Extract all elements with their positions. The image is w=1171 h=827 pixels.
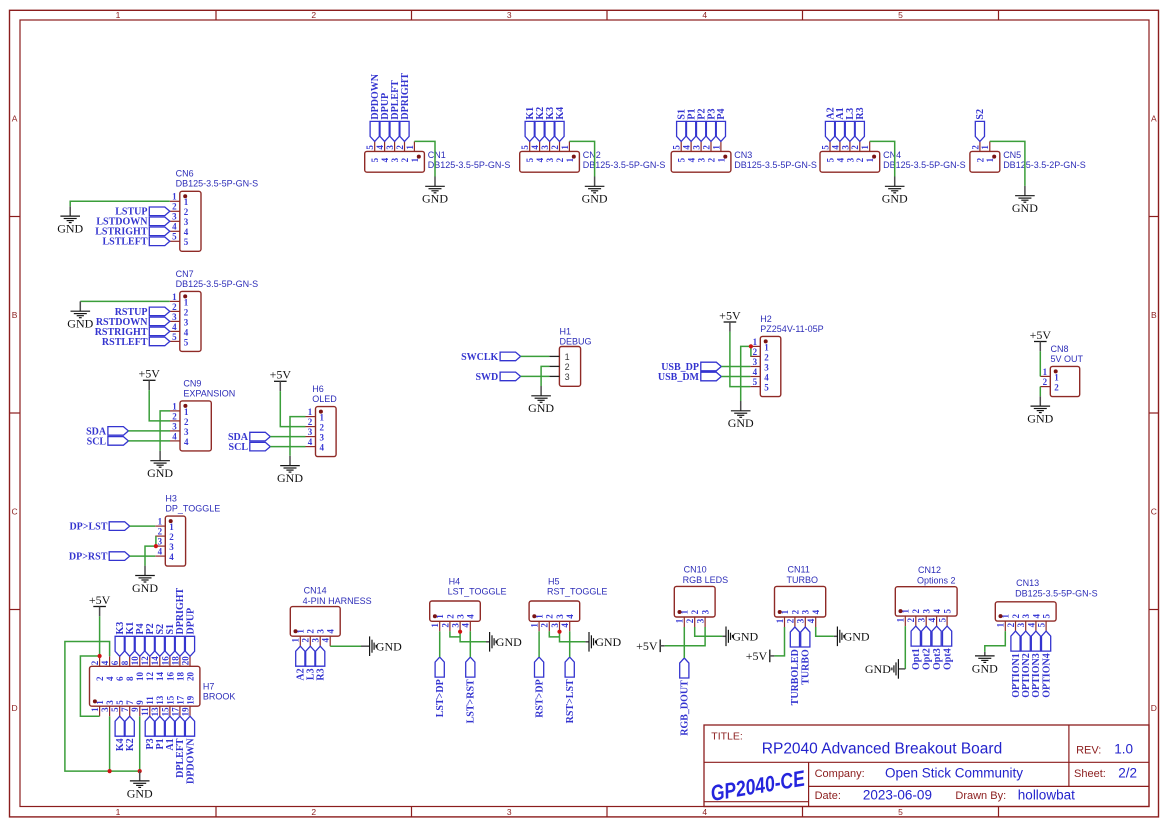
junction [108, 769, 112, 773]
svg-text:18: 18 [170, 656, 180, 666]
junction [98, 654, 102, 658]
svg-text:5: 5 [184, 337, 189, 347]
svg-text:GND: GND [844, 630, 870, 644]
svg-text:2: 2 [172, 202, 177, 212]
global label DP>LST [69, 522, 129, 533]
svg-text:H7: H7 [203, 682, 215, 692]
svg-text:1: 1 [560, 145, 570, 150]
wire H2 pins1+2 to GND [750, 346, 752, 356]
global label L3 [306, 646, 317, 680]
svg-text:3: 3 [701, 609, 711, 614]
svg-text:Drawn By:: Drawn By: [955, 790, 1006, 802]
svg-text:DB125-3.5-5P-GN-S: DB125-3.5-5P-GN-S [176, 179, 259, 189]
svg-text:1: 1 [1043, 367, 1048, 377]
global label SCL [229, 442, 271, 453]
svg-text:4: 4 [530, 145, 540, 150]
svg-text:2: 2 [555, 157, 565, 162]
junction [749, 344, 753, 348]
svg-text:DP>LST: DP>LST [69, 522, 107, 533]
svg-text:2: 2 [311, 10, 316, 20]
wire +5V to H6 pin2 [280, 391, 305, 427]
svg-text:2: 2 [400, 157, 410, 162]
svg-text:3: 3 [311, 638, 321, 643]
wire H3 pins2+3 to GND [155, 536, 157, 546]
ground CN14-GND [361, 636, 402, 656]
ground H2-GND [728, 401, 754, 430]
svg-text:5: 5 [677, 157, 687, 162]
svg-text:CN6: CN6 [176, 169, 194, 179]
svg-text:3: 3 [507, 807, 512, 817]
svg-text:5: 5 [672, 145, 682, 150]
junction [154, 544, 158, 548]
svg-text:12: 12 [140, 656, 150, 666]
svg-text:3: 3 [1021, 614, 1031, 619]
svg-text:4: 4 [753, 367, 758, 377]
global label USB_DP [661, 362, 721, 373]
svg-text:19: 19 [185, 695, 195, 705]
svg-text:5: 5 [898, 807, 903, 817]
svg-text:A: A [1151, 113, 1157, 123]
wire pin1 to GND [870, 141, 895, 176]
ground CN2-GND [582, 177, 608, 206]
global label RSTLEFT [102, 337, 170, 348]
connector H7 BROOK [90, 656, 236, 717]
wire pin1 to GND [990, 141, 1025, 186]
svg-text:1: 1 [753, 337, 758, 347]
global label K4 [555, 107, 566, 142]
svg-text:2: 2 [184, 307, 189, 317]
svg-text:CN7: CN7 [176, 269, 194, 279]
svg-text:2: 2 [172, 302, 177, 312]
svg-text:TURBO: TURBO [801, 649, 812, 685]
svg-text:CN4: CN4 [883, 150, 901, 160]
wire pin1 down [439, 631, 441, 657]
svg-text:B: B [12, 310, 18, 320]
svg-text:1: 1 [896, 617, 906, 622]
svg-text:CN5: CN5 [1003, 150, 1021, 160]
junction [458, 630, 462, 634]
ground CN11-GND [834, 627, 870, 647]
svg-text:4: 4 [764, 372, 769, 382]
svg-text:DB125-3.5-5P-GN-S: DB125-3.5-5P-GN-S [176, 279, 259, 289]
connector H2 PZ254V-11-05P [750, 314, 823, 397]
svg-text:3: 3 [172, 312, 177, 322]
global label K2 [535, 107, 546, 142]
svg-text:H6: H6 [312, 384, 324, 394]
svg-text:+5V: +5V [636, 639, 658, 653]
svg-text:2: 2 [565, 362, 570, 372]
svg-text:6: 6 [110, 660, 120, 665]
svg-text:CN1: CN1 [428, 150, 446, 160]
wire pins2+3 to GND [549, 631, 559, 637]
global label LST>RST [466, 657, 477, 723]
svg-text:R3: R3 [855, 107, 866, 119]
svg-text:+5V: +5V [138, 367, 160, 381]
svg-text:4: 4 [702, 807, 707, 817]
svg-text:5: 5 [184, 237, 189, 247]
svg-text:R3: R3 [316, 668, 327, 680]
svg-text:A: A [12, 113, 18, 123]
svg-text:GND: GND [127, 786, 153, 800]
svg-text:4: 4 [380, 157, 390, 162]
svg-text:RGB_DOUT: RGB_DOUT [680, 680, 691, 736]
svg-text:1: 1 [184, 407, 189, 417]
connector CN12 Options 2 [895, 565, 957, 626]
connector H4 LST_TOGGLE [430, 577, 507, 632]
svg-text:4: 4 [682, 145, 692, 150]
svg-text:1: 1 [860, 145, 870, 150]
global label DPLEFT [390, 80, 401, 142]
ground H3-GND [132, 566, 158, 595]
svg-text:CN11: CN11 [788, 565, 810, 575]
svg-text:4: 4 [172, 431, 177, 441]
wire SCL to H6 pin4 [270, 446, 305, 448]
global label LSTLEFT [102, 237, 169, 248]
svg-text:GND: GND [67, 317, 93, 331]
svg-text:4: 4 [687, 157, 697, 162]
global label P4 [135, 623, 146, 656]
global label K2 [125, 716, 136, 751]
svg-text:3: 3 [184, 427, 189, 437]
global label S1 [677, 109, 688, 141]
svg-text:5: 5 [938, 617, 948, 622]
svg-text:2: 2 [158, 527, 163, 537]
svg-text:4: 4 [466, 614, 476, 619]
wire DP>LST to H3 pin1 [130, 525, 156, 527]
svg-text:3: 3 [753, 357, 758, 367]
svg-text:2: 2 [184, 207, 189, 217]
junction [557, 630, 561, 634]
svg-text:DB125-3.5-5P-GN-S: DB125-3.5-5P-GN-S [428, 160, 511, 170]
svg-text:3: 3 [451, 623, 461, 628]
svg-text:DB125-3.5-5P-GN-S: DB125-3.5-5P-GN-S [734, 160, 817, 170]
wire +5V to CN10 pin3 [665, 627, 705, 646]
ground CN13-GND [972, 652, 998, 675]
global label RST>LST [565, 657, 576, 723]
svg-text:4: 4 [806, 618, 816, 623]
ground CN1-GND [422, 177, 448, 206]
svg-text:5: 5 [898, 10, 903, 20]
svg-text:1: 1 [116, 10, 121, 20]
svg-text:3: 3 [172, 421, 177, 431]
svg-text:5: 5 [820, 145, 830, 150]
svg-text:1: 1 [405, 145, 415, 150]
svg-text:S2: S2 [975, 109, 986, 120]
svg-text:2: 2 [395, 145, 405, 150]
svg-text:3: 3 [184, 317, 189, 327]
global label A2 [825, 107, 836, 141]
svg-text:2: 2 [308, 417, 313, 427]
power +5V H6 [270, 368, 292, 391]
connector CN1 DB125-3.5-5P-GN-S [365, 141, 511, 172]
svg-text:5: 5 [943, 609, 953, 614]
svg-text:+5V: +5V [719, 308, 741, 322]
connector CN3 DB125-3.5-5P-GN-S [671, 141, 817, 172]
svg-text:GND: GND [732, 630, 758, 644]
svg-text:1: 1 [169, 522, 174, 532]
svg-text:4: 4 [535, 157, 545, 162]
global label OPTION4 [1041, 631, 1052, 698]
svg-text:14: 14 [150, 656, 160, 666]
svg-text:2: 2 [320, 423, 325, 433]
svg-text:RSTLEFT: RSTLEFT [102, 337, 148, 348]
svg-text:PZ254V-11-05P: PZ254V-11-05P [760, 324, 823, 334]
global label LSTRIGHT [95, 227, 170, 238]
svg-text:CN3: CN3 [734, 150, 752, 160]
svg-text:16: 16 [165, 672, 175, 682]
ground CN12-GND [865, 659, 905, 679]
svg-text:4: 4 [326, 629, 336, 634]
svg-text:5: 5 [764, 383, 769, 393]
svg-text:GND: GND [865, 662, 891, 676]
svg-text:2: 2 [172, 411, 177, 421]
wire SWD to H1 pin3 [521, 375, 550, 377]
svg-text:D: D [1151, 703, 1157, 713]
svg-text:EXPANSION: EXPANSION [183, 388, 235, 398]
svg-text:3: 3 [545, 157, 555, 162]
wire SDA to pin3 [128, 430, 170, 432]
svg-text:10: 10 [135, 672, 145, 682]
global label P2 [696, 108, 707, 141]
svg-text:CN8: CN8 [1051, 344, 1069, 354]
wire pin1 to GND [569, 141, 594, 176]
svg-text:3: 3 [845, 157, 855, 162]
svg-text:5: 5 [115, 700, 125, 705]
svg-text:H2: H2 [760, 314, 772, 324]
global label K4 [115, 716, 126, 751]
global label R3 [316, 646, 327, 680]
svg-text:2: 2 [90, 660, 100, 665]
svg-text:SWD: SWD [476, 372, 499, 383]
svg-text:2: 2 [685, 618, 695, 623]
wire CN13 pin1 to GND [985, 631, 1006, 652]
global label DPDOWN [185, 716, 196, 784]
svg-text:2: 2 [440, 623, 450, 628]
power +5V CN8 [1030, 328, 1052, 351]
ground CN10-GND [722, 627, 758, 647]
svg-text:2: 2 [169, 532, 174, 542]
svg-text:2: 2 [550, 145, 560, 150]
svg-text:GND: GND [132, 581, 158, 595]
svg-text:3: 3 [184, 217, 189, 227]
global label TURBO [801, 627, 812, 685]
global label K1 [525, 107, 536, 142]
svg-text:3: 3 [105, 700, 115, 705]
svg-text:K4: K4 [555, 107, 566, 120]
global label SDA [86, 426, 128, 437]
svg-text:3: 3 [796, 618, 806, 623]
svg-text:2: 2 [95, 676, 105, 681]
ground CN6-GND [57, 206, 83, 235]
svg-text:1: 1 [711, 145, 721, 150]
svg-text:4: 4 [320, 443, 325, 453]
svg-text:LSTLEFT: LSTLEFT [102, 237, 147, 248]
svg-text:4: 4 [1031, 614, 1041, 619]
wire +5V to CN9 pin2 [149, 390, 170, 421]
svg-text:2: 2 [855, 157, 865, 162]
ground H5-GND [585, 632, 621, 652]
svg-text:3: 3 [320, 433, 325, 443]
svg-text:GND: GND [1027, 412, 1053, 426]
global label USB_DM [658, 372, 721, 383]
svg-text:GND: GND [582, 192, 608, 206]
global label K3 [545, 107, 556, 142]
svg-text:16: 16 [160, 656, 170, 666]
global label DPDOWN [370, 73, 381, 141]
connector CN14 4-PIN HARNESS [290, 586, 371, 647]
wire +5V to CN11 pin1 [774, 627, 784, 656]
svg-text:1: 1 [980, 145, 990, 150]
wire +5V to H2 pin5 [730, 332, 750, 387]
svg-text:DP_TOGGLE: DP_TOGGLE [165, 504, 220, 514]
svg-text:2: 2 [970, 145, 980, 150]
global label SWCLK [461, 352, 521, 363]
svg-text:3: 3 [308, 427, 313, 437]
ground H1-GND [528, 386, 554, 415]
global label P3 [706, 108, 717, 141]
svg-text:GND: GND [595, 635, 621, 649]
svg-text:RST>LST: RST>LST [565, 679, 576, 723]
wire CN14 pin4 to GND [330, 645, 361, 647]
svg-text:15: 15 [160, 707, 170, 717]
global label DPRIGHT [175, 588, 186, 657]
svg-text:4: 4 [927, 617, 937, 622]
svg-text:CN2: CN2 [583, 150, 601, 160]
svg-text:2: 2 [785, 618, 795, 623]
svg-text:1: 1 [430, 623, 440, 628]
svg-text:2/2: 2/2 [1118, 765, 1137, 780]
svg-text:1: 1 [764, 342, 769, 352]
ground H6-GND [277, 456, 303, 485]
svg-text:3: 3 [1016, 622, 1026, 627]
svg-text:11: 11 [140, 707, 150, 716]
svg-text:2: 2 [540, 623, 550, 628]
svg-text:3: 3 [456, 614, 466, 619]
svg-text:2: 2 [1043, 377, 1048, 387]
svg-text:18: 18 [175, 672, 185, 682]
svg-text:OLED: OLED [312, 394, 337, 404]
svg-text:4: 4 [100, 660, 110, 665]
global label P4 [716, 108, 727, 141]
svg-text:3: 3 [507, 10, 512, 20]
svg-text:CN13: CN13 [1016, 578, 1039, 588]
global label OPTION3 [1031, 631, 1042, 698]
svg-text:REV:: REV: [1076, 744, 1101, 756]
wire pin1 to GND [414, 141, 435, 176]
svg-text:2: 2 [701, 145, 711, 150]
title block [704, 725, 1149, 807]
svg-text:2: 2 [690, 609, 700, 614]
svg-text:DB125-3.5-5P-GN-S: DB125-3.5-5P-GN-S [1015, 588, 1098, 598]
svg-text:4: 4 [1026, 622, 1036, 627]
svg-text:Opt1: Opt1 [911, 648, 922, 670]
svg-text:GND: GND [277, 471, 303, 485]
svg-text:1: 1 [565, 352, 570, 362]
svg-text:1: 1 [172, 292, 177, 302]
svg-text:4: 4 [172, 222, 177, 232]
wire +5V to H7 pins 2 and 1 [99, 616, 101, 656]
svg-text:2: 2 [850, 145, 860, 150]
svg-text:8: 8 [125, 676, 135, 681]
global label S1 [165, 624, 176, 656]
ground H4-GND [486, 632, 522, 652]
ground CN7-GND [67, 301, 93, 330]
global label DPUP [185, 608, 196, 656]
svg-text:3: 3 [917, 617, 927, 622]
svg-text:3: 3 [550, 623, 560, 628]
wire pin1 to GND [80, 300, 170, 302]
global label A2 [296, 646, 307, 680]
svg-text:H4: H4 [449, 577, 461, 587]
svg-text:4: 4 [375, 145, 385, 150]
ground CN4-GND [882, 177, 908, 206]
global label DPLEFT [175, 716, 186, 778]
global label LSTUP [115, 207, 170, 218]
svg-text:K2: K2 [125, 738, 136, 751]
svg-text:1.0: 1.0 [1114, 741, 1133, 756]
svg-text:H5: H5 [548, 577, 560, 587]
svg-text:13: 13 [155, 695, 165, 705]
svg-text:TURBOLED: TURBOLED [790, 649, 801, 705]
svg-text:7: 7 [120, 707, 130, 712]
svg-text:TITLE:: TITLE: [711, 731, 743, 743]
svg-text:3: 3 [169, 542, 174, 552]
svg-text:1: 1 [675, 618, 685, 623]
connector H5 RST_TOGGLE [529, 577, 607, 632]
svg-text:5: 5 [525, 157, 535, 162]
svg-text:4: 4 [461, 623, 471, 628]
global label SCL [87, 436, 129, 447]
wire pin1 down [538, 631, 540, 657]
junction [138, 769, 142, 773]
svg-text:DB125-3.5-5P-GN-S: DB125-3.5-5P-GN-S [883, 160, 966, 170]
wire SDA to H6 pin3 [270, 436, 305, 438]
svg-text:4: 4 [184, 327, 189, 337]
svg-text:+5V: +5V [270, 368, 292, 382]
svg-text:1: 1 [172, 401, 177, 411]
global label Opt2 [922, 626, 933, 670]
connector CN8 5V OUT [1040, 344, 1083, 397]
svg-text:10: 10 [130, 656, 140, 666]
global label A1 [835, 107, 846, 141]
power +5V CN9 [138, 367, 160, 390]
svg-text:2: 2 [975, 157, 985, 162]
ground CN5-GND [1012, 186, 1038, 215]
global label R3 [855, 107, 866, 141]
svg-text:2: 2 [790, 609, 800, 614]
svg-text:4: 4 [811, 609, 821, 614]
wire H7 pins 4,3,9 to GND [65, 642, 140, 772]
wire CN10 pin1 to RGB_DOUT [683, 627, 685, 658]
svg-text:1: 1 [1054, 372, 1059, 382]
svg-text:4: 4 [702, 10, 707, 20]
svg-text:BROOK: BROOK [203, 692, 236, 702]
svg-text:4: 4 [169, 552, 174, 562]
global label LSTDOWN [96, 217, 169, 228]
svg-text:GND: GND [1012, 201, 1038, 215]
svg-text:2: 2 [1054, 383, 1059, 393]
svg-text:+5V: +5V [1030, 328, 1052, 342]
wire CN9 pin1 to GND [160, 411, 170, 451]
svg-text:13: 13 [150, 707, 160, 717]
svg-text:Opt3: Opt3 [932, 648, 943, 670]
svg-text:20: 20 [180, 656, 190, 666]
svg-text:1: 1 [116, 807, 121, 817]
wire DP>RST to H3 pin4 [130, 555, 156, 557]
svg-text:GND: GND [496, 635, 522, 649]
svg-text:2: 2 [184, 417, 189, 427]
svg-text:2: 2 [1011, 614, 1021, 619]
